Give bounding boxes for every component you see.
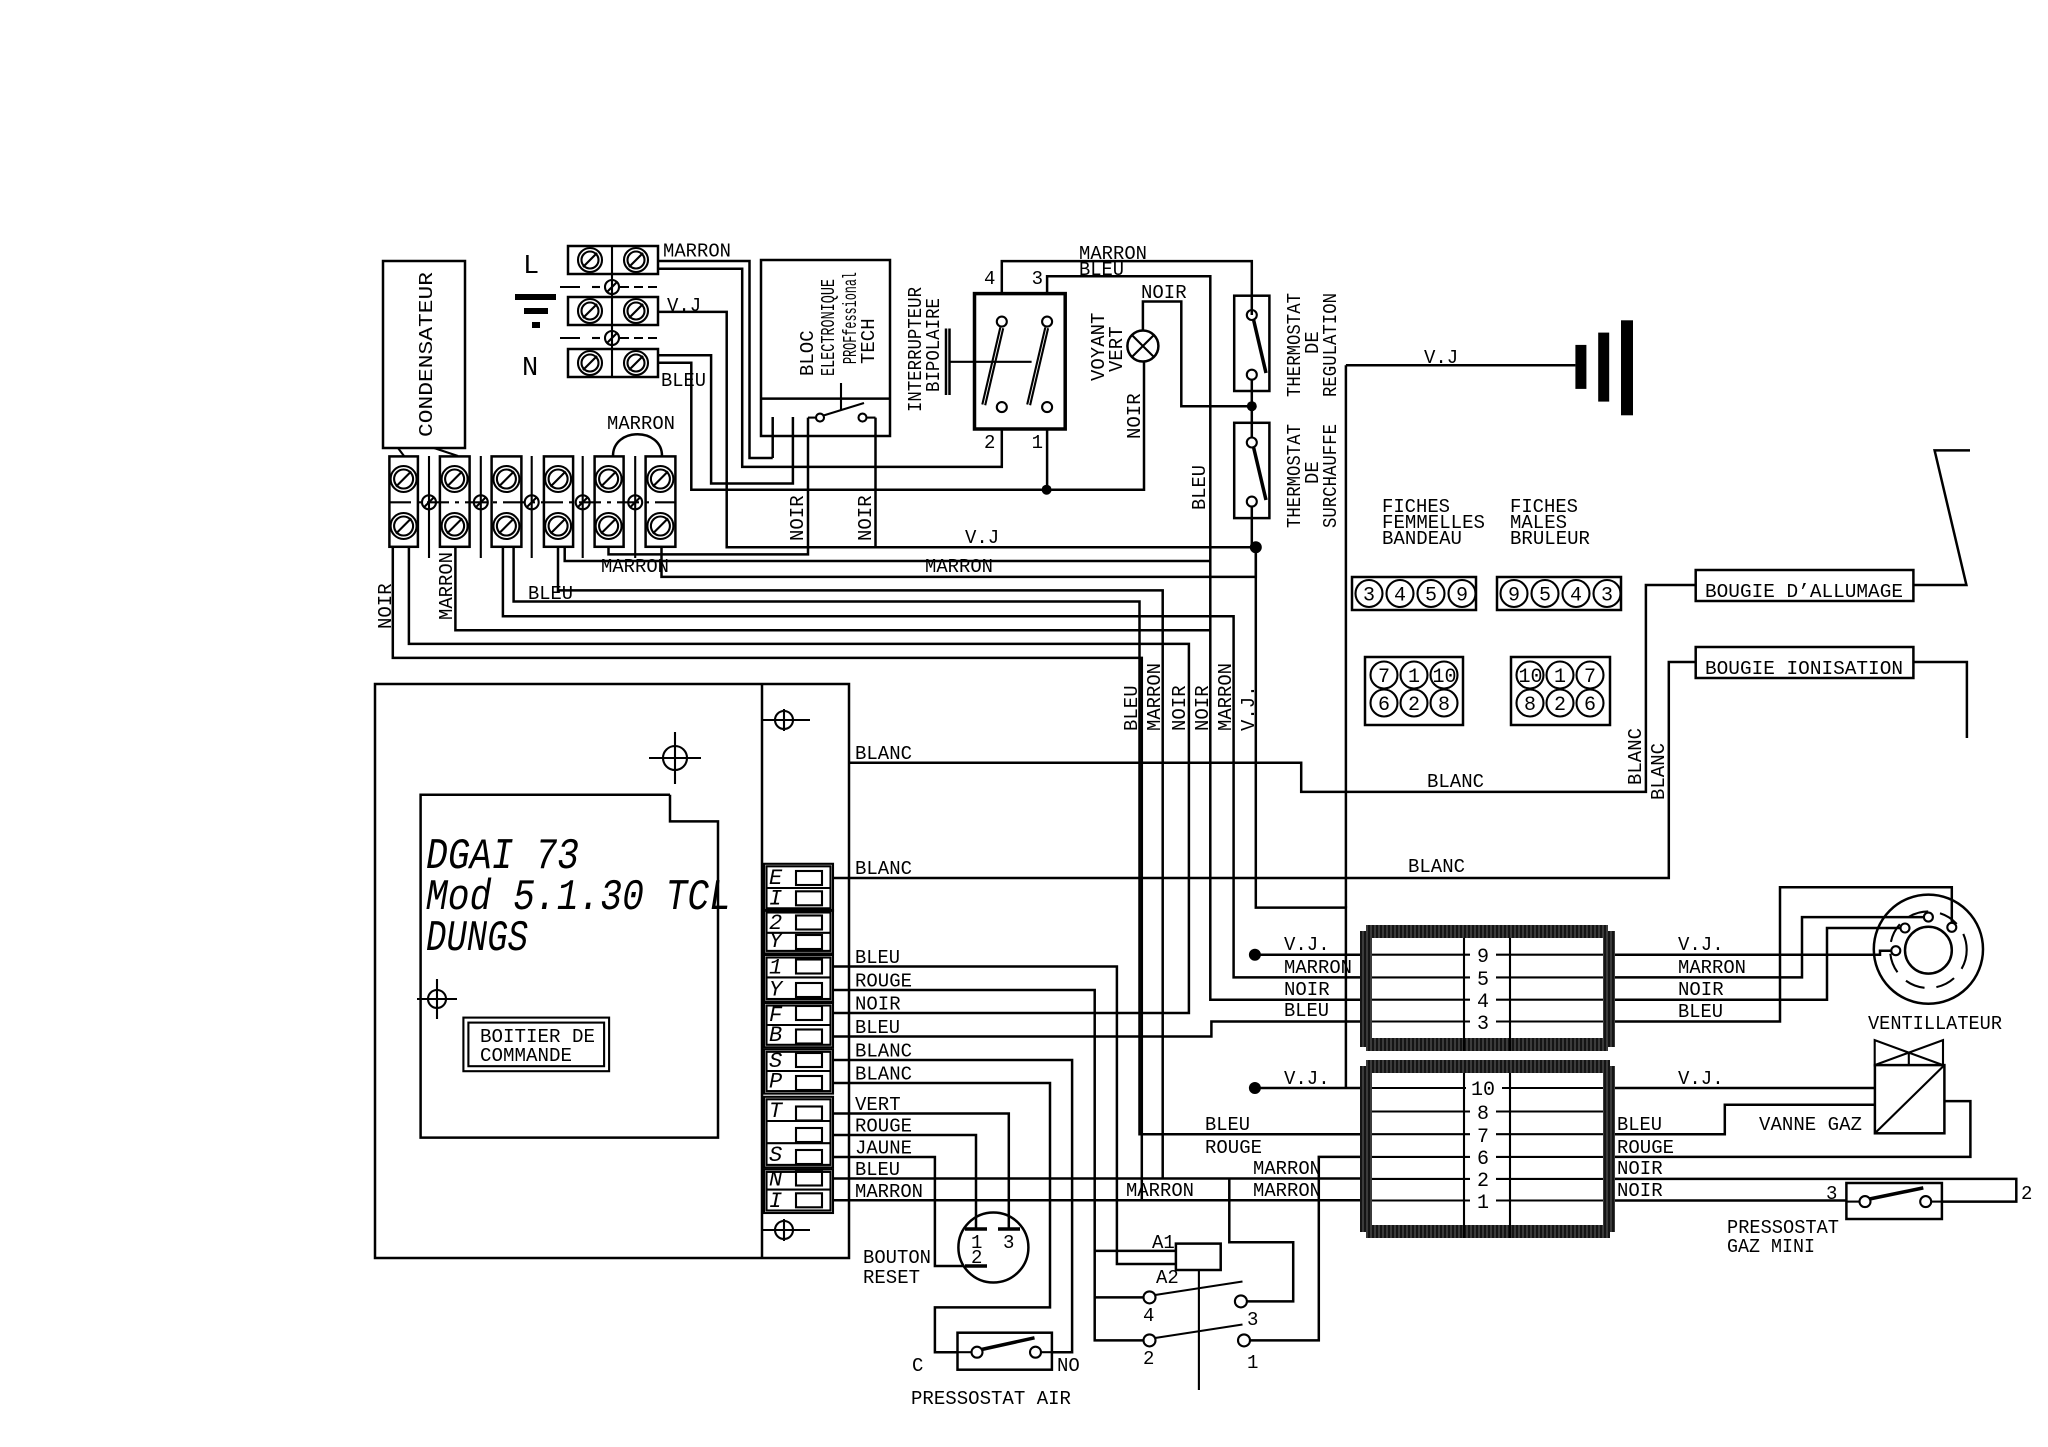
svg-text:6: 6 (1477, 1148, 1489, 1171)
relay contact 1 (1238, 1334, 1258, 1374)
pin 4 (1372, 999, 1603, 1001)
svg-text:L: L (523, 252, 539, 282)
BOITIER DE COMMANDE label box (463, 1018, 609, 1072)
wire bougie allumage to spark electrode (1913, 450, 1970, 585)
terminal block V.J (mains middle) (568, 297, 658, 325)
pin 6 (1372, 1156, 1603, 1158)
pin 8 (1372, 1110, 1603, 1112)
pressostat gaz mini switch (1846, 1183, 1942, 1219)
wire N BLEU to interrupteur pin 1 / voyant (658, 362, 1144, 490)
connector femelles 6-pin (7 1 10 / 6 2 8) (1365, 657, 1463, 725)
svg-text:2: 2 (971, 1247, 982, 1269)
svg-text:5: 5 (1477, 969, 1489, 992)
bloc electronique PROFfessional TECH box U1 (761, 260, 890, 436)
svg-text:NOIR: NOIR (1284, 979, 1330, 1001)
wire bloc pin to block5 of strip (609, 418, 809, 555)
svg-text:NOIR: NOIR (1169, 685, 1191, 731)
svg-text:MARRON: MARRON (601, 556, 669, 578)
svg-text:MARRON: MARRON (1215, 663, 1237, 731)
BOUGIE D'ALLUMAGE box (1696, 570, 1914, 603)
wire V.J to chassis earth (top right) (1346, 364, 1576, 367)
svg-text:10: 10 (1433, 666, 1457, 689)
svg-text:6: 6 (1378, 694, 1390, 717)
wire N-BLEU branch to contact 3 (1229, 1179, 1293, 1302)
chassis earth symbol (three bars) (1575, 320, 1633, 415)
svg-text:7: 7 (1584, 666, 1596, 689)
svg-text:MARRON: MARRON (436, 552, 458, 620)
svg-text:7: 7 (1378, 666, 1390, 689)
svg-text:REGULATION: REGULATION (1320, 293, 1342, 397)
wire block2 pin1 NOIR to pressostat gaz left (1615, 1199, 1846, 1202)
wire block4 to interrupteur BLEU vertical (565, 547, 1211, 561)
wire block1 pin5 MARRON to ventilator t1 (1615, 917, 1923, 977)
svg-text:8: 8 (1438, 694, 1450, 717)
terminal blank row (796, 1128, 822, 1142)
svg-text:MARRON: MARRON (1253, 1180, 1321, 1202)
svg-text:3: 3 (1003, 1232, 1014, 1254)
wire block2 pin7 BLEU to vanne gaz (1615, 1105, 1875, 1134)
strip block 4 (544, 456, 573, 546)
wire V.J. chain top (to chassis symbol) (1345, 365, 1348, 907)
svg-text:3: 3 (1477, 1013, 1489, 1036)
svg-text:1: 1 (1247, 1352, 1258, 1374)
svg-text:N: N (522, 354, 538, 384)
svg-text:NOIR: NOIR (1678, 979, 1724, 1001)
pin 7 (1372, 1133, 1603, 1135)
label FICHES FEMMELLES BANDEAU (1382, 496, 1485, 550)
screw symbol bottom of column (762, 1219, 810, 1241)
svg-text:3: 3 (1601, 585, 1613, 608)
svg-text:VERT: VERT (1106, 326, 1128, 372)
svg-text:P: P (769, 1069, 782, 1094)
svg-text:2: 2 (1554, 694, 1566, 717)
wire JAUNE terminal S to bouton reset pin 2 (833, 1157, 964, 1266)
svg-text:4: 4 (984, 268, 995, 290)
svg-text:MARRON: MARRON (925, 556, 993, 578)
svg-text:NO: NO (1057, 1355, 1080, 1377)
wire contact 1 to connector block2 pin 6 (1250, 1157, 1360, 1341)
svg-text:NOIR: NOIR (375, 583, 397, 629)
connector fiches males row (9 5 4 3) (1497, 577, 1621, 610)
svg-text:4: 4 (1570, 585, 1582, 608)
svg-text:V.J.: V.J. (1284, 934, 1330, 956)
svg-text:MARRON: MARRON (1678, 957, 1746, 979)
wire block6 MARRON to V.J junction riser (662, 547, 1256, 577)
wire BLANC boitier to bougie allumage (850, 585, 1696, 792)
strip block 2 (440, 456, 470, 546)
svg-text:TECH: TECH (858, 318, 880, 364)
svg-text:1: 1 (1477, 1192, 1489, 1215)
svg-text:B: B (769, 1023, 782, 1048)
svg-text:ROUGE: ROUGE (1617, 1137, 1674, 1159)
svg-text:COMMANDE: COMMANDE (480, 1045, 572, 1067)
lamp VOYANT VERT (1127, 331, 1158, 362)
svg-text:BOUGIE IONISATION: BOUGIE IONISATION (1705, 658, 1903, 680)
svg-text:DUNGS: DUNGS (426, 914, 528, 964)
svg-text:BOUGIE D’ALLUMAGE: BOUGIE D’ALLUMAGE (1705, 581, 1903, 603)
svg-text:8: 8 (1477, 1103, 1489, 1126)
svg-text:MARRON: MARRON (855, 1181, 923, 1203)
svg-text:BRULEUR: BRULEUR (1510, 528, 1590, 550)
svg-text:MARRON: MARRON (1253, 1158, 1321, 1180)
wire interrupteur pin 3 BLEU long vertical (1047, 276, 1360, 999)
connector fiches femelles row (3 4 5 9) (1352, 577, 1476, 610)
wire V.J. to block2 pin 10 (1255, 1087, 1360, 1090)
wire N BLEU to bloc pin (via 711) (658, 355, 793, 483)
svg-text:V.J: V.J (965, 527, 999, 549)
svg-text:CONDENSATEUR: CONDENSATEUR (416, 272, 438, 437)
ground symbol (earth bars near L) (515, 294, 556, 328)
svg-text:1: 1 (1032, 432, 1043, 454)
svg-text:V.J: V.J (1424, 347, 1458, 369)
svg-text:VANNE GAZ: VANNE GAZ (1759, 1114, 1862, 1136)
bouton reset B1 (958, 1213, 1028, 1283)
svg-text:2: 2 (984, 432, 995, 454)
wire BLANC terminal P to pressostat air C (833, 1083, 1050, 1352)
terminal group N I (764, 1169, 833, 1213)
wire block1a NOIR to MARRON I wire (393, 547, 1142, 1201)
svg-text:1: 1 (1554, 666, 1566, 689)
wire block2 pin10 V.J. to vanne gaz (1615, 1087, 1875, 1090)
terminal group 2 Y (764, 910, 833, 953)
wire L MARRON to bloc electronique pin (658, 261, 773, 458)
svg-text:ROUGE: ROUGE (855, 971, 912, 993)
wire ROUGE to bouton reset pin 1 (833, 1135, 976, 1229)
strip block 3 (492, 456, 522, 546)
relay coil A1/A2 box K1 (1095, 1232, 1221, 1390)
wire block3b to block2 connector pin 7 (514, 547, 1360, 1134)
capacitor CONDENSATEUR box (383, 261, 465, 448)
relay contact 2 (1143, 1325, 1243, 1371)
label FICHES MALES BRULEUR (1510, 496, 1590, 550)
wire block2 to block1 connector pin 4 (455, 547, 1210, 630)
vanne gaz box Y1 (1875, 1065, 1945, 1133)
svg-text:GAZ MINI: GAZ MINI (1727, 1236, 1815, 1258)
svg-text:BLEU: BLEU (661, 370, 706, 392)
wire BLANC terminal S to pressostat air NO (833, 1060, 1072, 1352)
wire bloc right contact down to V.J line (NOIR) (874, 418, 877, 548)
pin 2 (1372, 1178, 1603, 1180)
svg-text:10: 10 (1519, 666, 1543, 689)
svg-text:BLEU: BLEU (1617, 1114, 1662, 1136)
thermostat de regulation switch box (1234, 296, 1269, 391)
wire block1 pin4 NOIR to ventilator t2 (1615, 928, 1900, 1000)
svg-text:S: S (769, 1143, 782, 1168)
svg-text:C: C (912, 1355, 923, 1377)
pin 9 (1372, 954, 1603, 956)
svg-text:6: 6 (1584, 694, 1596, 717)
wire block2 pin2 NOIR to pressostat gaz right (1615, 1179, 2016, 1202)
svg-text:Y: Y (769, 977, 784, 1002)
svg-text:NOIR: NOIR (855, 495, 877, 541)
svg-text:BLANC: BLANC (1408, 856, 1465, 878)
svg-text:BLANC: BLANC (855, 743, 912, 765)
svg-text:9: 9 (1508, 585, 1520, 608)
svg-text:MARRON: MARRON (663, 241, 731, 263)
svg-text:BLANC: BLANC (1625, 728, 1647, 785)
svg-text:5: 5 (1425, 585, 1437, 608)
strip gap screws and centreline (389, 456, 676, 558)
screw symbol top of column (762, 709, 810, 731)
wire block1 pin3 BLEU to ventilator t0 (1615, 887, 1952, 1021)
svg-text:2: 2 (2021, 1183, 2032, 1205)
svg-text:BLEU: BLEU (1678, 1001, 1723, 1023)
valve bowtie symbol (vanne) (1875, 1040, 1943, 1065)
svg-text:MARRON: MARRON (1144, 663, 1166, 731)
svg-text:RESET: RESET (863, 1267, 920, 1289)
svg-text:VERT: VERT (855, 1094, 901, 1116)
svg-text:BLEU: BLEU (855, 1159, 900, 1181)
wire V.J mains to earth junction (658, 312, 1256, 547)
wire lamp top NOIR to regulation junction (1143, 302, 1251, 407)
terminal strip (6 blocks) (389, 456, 676, 558)
svg-text:9: 9 (1477, 946, 1489, 969)
wire interrupteur pin 4 MARRON to thermostat regulation (1002, 261, 1252, 315)
svg-text:BIPOLAIRE: BIPOLAIRE (923, 298, 945, 392)
svg-text:BANDEAU: BANDEAU (1382, 528, 1462, 550)
svg-text:PRESSOSTAT AIR: PRESSOSTAT AIR (911, 1388, 1071, 1410)
svg-text:BOUTON: BOUTON (863, 1247, 931, 1269)
svg-text:I: I (769, 1189, 782, 1214)
svg-text:BLEU: BLEU (1079, 259, 1124, 281)
svg-text:MARRON: MARRON (1126, 1180, 1194, 1202)
pressostat air switch (958, 1333, 1052, 1370)
junction dot interrupteur pin1 / lamp wire (1042, 485, 1052, 495)
bloc pin wires below box (771, 417, 774, 458)
svg-text:9: 9 (1456, 585, 1468, 608)
svg-text:BLEU: BLEU (855, 1017, 900, 1039)
svg-text:V.J.: V.J. (1284, 1068, 1330, 1090)
terminal block L (mains) (568, 246, 658, 274)
svg-text:BLEU: BLEU (1121, 685, 1143, 731)
wire condensateur to strip terminal 1 (398, 448, 404, 456)
vertical wire labels bundle (BLEU MARRON NOIR NOIR MARRON V.J.) (1121, 663, 1260, 731)
interrupteur bipolaire switch S1 box (946, 294, 1065, 429)
terminal block N (mains) (568, 349, 658, 377)
mains blocks centre line and small screws (560, 246, 658, 377)
svg-text:5: 5 (1539, 585, 1551, 608)
svg-text:BLANC: BLANC (1427, 771, 1484, 793)
svg-text:1: 1 (1408, 666, 1420, 689)
wire MARRON terminal I to connector block2 pin 1 (833, 1199, 1360, 1202)
switch inside bloc electronique (808, 383, 876, 422)
svg-text:NOIR: NOIR (855, 994, 901, 1016)
svg-text:2: 2 (1408, 694, 1420, 717)
svg-text:3: 3 (1826, 1183, 1837, 1205)
pin 1 (1372, 1199, 1603, 1201)
svg-text:NOIR: NOIR (787, 495, 809, 541)
svg-text:NOIR: NOIR (1617, 1180, 1663, 1202)
svg-text:BLEU: BLEU (855, 947, 900, 969)
relay contact 3 (1235, 1295, 1259, 1331)
svg-text:3: 3 (1363, 585, 1375, 608)
svg-text:NOIR: NOIR (1617, 1158, 1663, 1180)
svg-text:2: 2 (1477, 1170, 1489, 1193)
svg-text:NOIR: NOIR (1124, 393, 1146, 439)
svg-text:V.J.: V.J. (1678, 934, 1724, 956)
svg-text:BLEU: BLEU (1284, 1000, 1329, 1022)
terminal group F B (764, 1003, 833, 1047)
wire L MARRON to interrupteur pin 2 (658, 269, 1002, 467)
node V.J. dot (block2 pin10 feed) (1249, 1082, 1261, 1094)
svg-text:4: 4 (1394, 585, 1406, 608)
svg-text:V.J: V.J (667, 295, 701, 317)
wire V.J. to block1 pin 9 (1255, 953, 1360, 956)
svg-text:VENTILLATEUR: VENTILLATEUR (1868, 1013, 2002, 1035)
svg-text:4: 4 (1143, 1305, 1154, 1327)
svg-text:BLANC: BLANC (855, 1064, 912, 1086)
boitier outer box (375, 684, 849, 1258)
terminal group T _ S (764, 1097, 833, 1168)
svg-text:3: 3 (1247, 1309, 1258, 1331)
wire BLEU terminal N to connector block2 pin 2 (833, 1177, 1360, 1180)
svg-text:NOIR: NOIR (1192, 685, 1214, 731)
wire VERT terminal T to bouton reset pin 3 (833, 1114, 1009, 1230)
svg-text:NOIR: NOIR (1141, 282, 1187, 304)
svg-text:BLEU: BLEU (1189, 465, 1211, 510)
svg-text:8: 8 (1524, 694, 1536, 717)
svg-text:MARRON: MARRON (607, 413, 675, 435)
strip block 5 (595, 456, 624, 546)
wire block3a to block1 connector pin 5 (503, 547, 1360, 977)
svg-text:Y: Y (769, 929, 784, 954)
strip block 6 (646, 456, 676, 546)
wire BLEU terminal B to connector block1 pin 3 (833, 1022, 1360, 1037)
wire BLANC terminal E to bougie ionisation (833, 662, 1696, 878)
svg-text:A2: A2 (1156, 1267, 1179, 1289)
svg-text:7: 7 (1477, 1126, 1489, 1149)
wire regulation bottom to junction dot (1251, 379, 1254, 406)
svg-text:BLANC: BLANC (855, 1041, 912, 1063)
pin 10 (1372, 1087, 1603, 1089)
wire block1b NOIR to terminal F (409, 547, 1189, 1013)
svg-text:ROUGE: ROUGE (1205, 1137, 1262, 1159)
wire bougie ionisation right (dangling) (1913, 662, 1967, 738)
svg-text:I: I (769, 887, 782, 912)
terminal group E I (764, 864, 833, 911)
wire ROUGE terminal Y to relay A1 and contacts (833, 990, 1144, 1340)
wire block4b BLEU to bundle vertical (N wire join) (558, 547, 1163, 1179)
junction dot regulation/surchauffe (1247, 401, 1257, 411)
svg-text:BLEU: BLEU (1205, 1114, 1250, 1136)
wire MARRON bridge arc block5-block6 (613, 434, 662, 456)
svg-text:BLANC: BLANC (1648, 743, 1670, 800)
wire BLEU terminal 1 to relay coil A2 riser (833, 967, 1176, 1265)
node V.J. dot (block1 pin9 feed) (1249, 949, 1261, 961)
wire interrupteur pin 1 down to junction (1046, 429, 1049, 490)
svg-text:V.J.: V.J. (1678, 1068, 1724, 1090)
svg-text:3: 3 (1032, 268, 1043, 290)
svg-text:BLOC: BLOC (797, 330, 819, 376)
svg-text:4: 4 (1477, 991, 1489, 1014)
svg-text:MARRON: MARRON (1284, 957, 1352, 979)
svg-text:10: 10 (1471, 1079, 1495, 1102)
DGAI control box outline (stepped corner) (421, 795, 718, 1138)
terminal group S P (764, 1049, 833, 1093)
strip block 1 (389, 456, 418, 546)
svg-text:ELECTRONIQUE: ELECTRONIQUE (818, 279, 840, 376)
ventilator fan motor M1 (1874, 895, 1983, 1004)
wire block2 pin6 ROUGE to vanne gaz right (1615, 1101, 1970, 1157)
svg-text:2: 2 (1143, 1348, 1154, 1370)
pin 3 (1372, 1020, 1603, 1022)
svg-text:ROUGE: ROUGE (855, 1116, 912, 1138)
svg-text:BLANC: BLANC (855, 858, 912, 880)
wire condensateur to strip terminal 2 (434, 448, 458, 456)
wire V.J. chain (earth distribution) (1256, 547, 1346, 1088)
connector males 6-pin (10 1 7 / 8 2 6) (1511, 657, 1610, 725)
relay contact 4 (1095, 1282, 1243, 1328)
svg-text:JAUNE: JAUNE (855, 1138, 912, 1160)
terminal group 1 Y (764, 955, 833, 1002)
BOUGIE IONISATION box (1696, 647, 1914, 680)
screw symbol big box top (649, 732, 701, 784)
pin 5 (1372, 976, 1603, 978)
connector block 1 (hatched frame) (1360, 925, 1615, 1051)
thermostat de surchauffe switch box (1234, 406, 1269, 547)
wire block1 pin9 V.J. to ventilator t3 (1615, 951, 1892, 955)
svg-text:SURCHAUFFE: SURCHAUFFE (1320, 424, 1342, 528)
connector block 2 (hatched frame) (1360, 1060, 1615, 1238)
connector strip of boitier (terminals) (764, 864, 833, 1214)
junction dot V.J / surchauffe (1250, 541, 1262, 553)
screw symbol in DGAI box (417, 979, 457, 1019)
